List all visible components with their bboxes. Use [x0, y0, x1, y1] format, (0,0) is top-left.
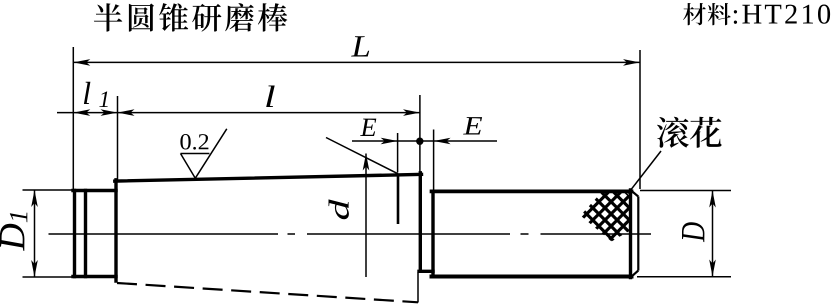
left E dimension line: [352, 140, 497, 142]
l extension line at gauge plane: [419, 95, 421, 172]
left E extension line: [397, 133, 399, 173]
left E label: [360, 119, 376, 136]
right E extension line: [433, 130, 435, 192]
l1 label: [84, 82, 108, 107]
title text 半圆锥研磨棒: [94, 3, 287, 32]
centerline: [49, 233, 652, 235]
cone big end face: [419, 173, 422, 271]
taper gauge diagonal: [326, 138, 398, 174]
cone left end face: [114, 180, 117, 281]
right end chamfer: [631, 191, 638, 278]
L dimension extension line right: [639, 50, 641, 189]
d label (rotated): [329, 199, 349, 219]
L dimension line with arrows: [73, 61, 640, 63]
material label 材料:HT210: [683, 3, 830, 25]
D extension lines: [637, 191, 731, 277]
tangent point dot: [416, 138, 423, 145]
groove shelf between cone and handle: [419, 270, 433, 273]
handle cylinder bottom edge: [432, 275, 632, 279]
right E label: [463, 117, 482, 134]
hidden bottom edge of cone (dashed): [117, 283, 418, 302]
l1 extension line: [117, 96, 119, 181]
l dimension line with arrows: [118, 112, 421, 114]
l1 dimension line with arrows: [57, 112, 118, 114]
handle cylinder top edge: [432, 190, 632, 194]
surface finish triangle symbol: [181, 129, 227, 178]
handle right end face: [629, 190, 632, 278]
L dimension extension line left: [72, 47, 74, 190]
D1 label (rotated): [0, 213, 27, 251]
D1 dimension line with arrows: [34, 190, 36, 277]
D dimension line with arrows: [712, 191, 714, 277]
extension below big end face: [417, 273, 419, 303]
handle cylinder left face: [431, 192, 434, 277]
D1 extension lines: [23, 190, 74, 277]
knurl leader line: [628, 151, 661, 194]
surface finish 0.2 value: [180, 134, 208, 150]
cone top taper edge: [115, 174, 422, 181]
right E dimension line arrow: [434, 138, 451, 145]
knurl label 滚花: [657, 117, 722, 148]
L label: [351, 36, 369, 56]
D label (rotated): [682, 222, 704, 242]
d arrow line: [365, 154, 367, 278]
left collar cylinder D1 outline: [73, 191, 116, 277]
l label: [266, 86, 275, 108]
gauge plane line inside cone: [397, 174, 400, 224]
